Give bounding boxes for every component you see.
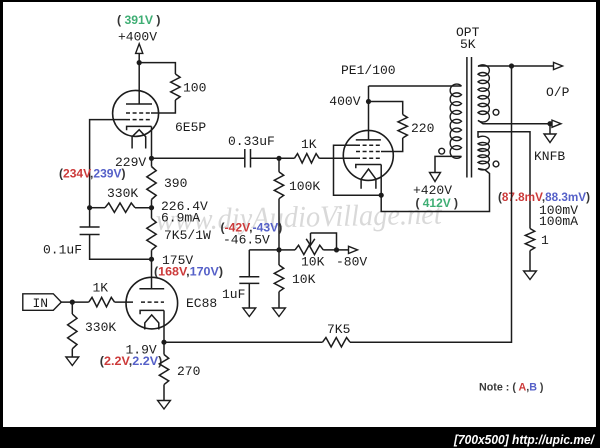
resistor 1: [525, 229, 534, 251]
wire bias to pot: [279, 249, 295, 251]
OPT primary winding: [450, 84, 461, 158]
wire 100K to bias node: [278, 199, 280, 250]
ground below 330K: [66, 357, 79, 366]
node 229V junction: [149, 156, 154, 161]
wire cap to grid node: [251, 157, 295, 159]
resistor 7K5 feedback: [323, 338, 351, 347]
wire 0.1uF to 175V node: [90, 235, 152, 260]
svg-text:+400V: +400V: [118, 29, 157, 44]
wire EC88 cathode lead: [163, 310, 165, 342]
wire bias to 330K: [90, 207, 105, 209]
OPT core: [466, 57, 468, 178]
wire 6E5P grid to bias node: [90, 120, 114, 208]
node +400V junction: [137, 60, 142, 65]
svg-text:0.1uF: 0.1uF: [43, 243, 82, 258]
svg-text:330K: 330K: [85, 320, 116, 335]
wire secondary bottom: [478, 120, 552, 123]
svg-text:( 391V ): ( 391V ): [117, 13, 161, 27]
svg-text:5K: 5K: [460, 37, 476, 52]
tube PE1/100 envelope: [343, 130, 393, 180]
svg-text:400V: 400V: [329, 94, 360, 109]
potentiometer 10K body: [295, 245, 323, 254]
wire 100K top lead: [278, 158, 280, 172]
power arrow +420V: [430, 173, 441, 182]
svg-text:100mA: 100mA: [539, 214, 578, 229]
PE1 cathode: [356, 165, 381, 169]
6E5P cathode: [127, 126, 152, 130]
wire 10K to ground: [278, 292, 280, 308]
wire 1 ohm to ground: [529, 251, 531, 271]
EC88 heater: [145, 315, 159, 330]
EC88 cathode: [140, 310, 164, 314]
svg-text:( 412V ): ( 412V ): [416, 196, 459, 210]
resistor 7K5/1W: [147, 218, 156, 250]
resistor 390: [147, 167, 156, 200]
svg-text:100: 100: [183, 81, 206, 96]
wire IN node to 330K: [71, 302, 73, 314]
OPT KNFB winding: [478, 136, 489, 170]
EC88 grid dashes: [141, 301, 164, 303]
svg-text:6.9mA: 6.9mA: [161, 211, 200, 226]
capacitor 0.33uF: [244, 149, 246, 168]
6E5P heater: [132, 130, 146, 149]
svg-text:10K: 10K: [292, 272, 316, 287]
ground below 270: [158, 401, 171, 410]
wire 1K to PE1 grid: [319, 157, 356, 159]
svg-text:220: 220: [411, 121, 434, 136]
svg-text:[700x500] http://upic.me/: [700x500] http://upic.me/: [453, 432, 595, 447]
svg-text:6E5P: 6E5P: [175, 120, 206, 135]
svg-text:Note : ( A,B ): Note : ( A,B ): [479, 382, 544, 394]
tube 6E5P envelope: [113, 90, 159, 136]
ground below 1 ohm: [524, 271, 537, 280]
svg-text:7K5/1W: 7K5/1W: [164, 228, 211, 243]
resistor 270: [159, 355, 168, 385]
wire 400V to 220: [369, 102, 403, 115]
svg-text:-46.5V: -46.5V: [223, 233, 270, 248]
wire pot to -80V arrow: [323, 249, 348, 251]
wire 7K5 to output: [350, 66, 512, 342]
resistor 220: [398, 115, 407, 139]
6E5P grid g2 dashes: [126, 112, 151, 114]
ground at secondary: [549, 124, 551, 134]
tube EC88 envelope: [126, 277, 178, 329]
svg-text:330K: 330K: [107, 186, 138, 201]
wire PE1 plate lead: [368, 86, 370, 140]
PE1 g1 dashes: [356, 157, 381, 159]
node bias junction: [276, 247, 281, 252]
node 100K top: [276, 156, 281, 161]
PE1 heater: [361, 169, 376, 189]
power arrow +400V supply: [136, 44, 143, 54]
node IN junction: [70, 300, 75, 305]
tag IN terminal: [23, 294, 62, 311]
capacitor 1uF: [239, 276, 259, 278]
pot wiper arrow: [310, 233, 312, 245]
OPT secondary winding: [478, 65, 489, 122]
EC88 plate: [139, 288, 164, 290]
resistor 10K lower: [274, 265, 283, 292]
resistor 1K grid PE1: [294, 154, 319, 163]
wire bias to 10K lower: [278, 250, 280, 265]
PE1 g3 dashes: [356, 144, 381, 146]
svg-text:270: 270: [177, 364, 200, 379]
wire 270 to ground: [163, 385, 165, 401]
6E5P plate: [126, 103, 152, 105]
wire 6E5P cathode lead: [151, 126, 153, 158]
wire bias node to 1uF: [249, 249, 279, 251]
svg-text:IN: IN: [33, 296, 49, 311]
svg-text:KNFB: KNFB: [534, 149, 565, 164]
node cathode 1.9V: [161, 340, 166, 345]
svg-text:390: 390: [164, 176, 187, 191]
resistor 1K grid stopper: [89, 297, 115, 306]
node O/P junction: [509, 63, 514, 68]
node secondary bottom: [547, 121, 552, 126]
ground below 1uF: [243, 308, 256, 317]
svg-text:PE1/100: PE1/100: [341, 63, 396, 78]
wire cathode to 270: [163, 342, 165, 354]
terminal O/P arrow: [554, 62, 563, 69]
svg-text:1: 1: [541, 233, 549, 248]
PE1 plate: [356, 139, 381, 141]
wire plate to primary: [369, 85, 462, 87]
svg-text:100K: 100K: [289, 179, 320, 194]
svg-text:7K5: 7K5: [327, 322, 350, 337]
ground below 10K: [273, 308, 286, 317]
wire +400V to 6E5P plate: [138, 63, 140, 104]
node PE1 cathode junction: [379, 193, 384, 198]
wire KNFB top lead: [478, 132, 530, 229]
svg-text:(234V,239V): (234V,239V): [59, 167, 126, 181]
wire R100 to 6E5P g2: [151, 100, 175, 113]
wire 1uF top lead: [248, 250, 250, 277]
terminal -80V arrow: [349, 246, 358, 253]
svg-text:O/P: O/P: [546, 85, 570, 100]
wire cathode to 7K5: [164, 341, 323, 343]
KNFB phase dot: [493, 161, 499, 167]
wire 220 to PE1 g2: [393, 138, 403, 152]
resistor 330K grid leak: [68, 314, 77, 349]
svg-text:1K: 1K: [301, 137, 317, 152]
node 330K right end: [149, 205, 154, 210]
svg-text:1K: 1K: [93, 280, 109, 295]
wire +400V to R 100: [139, 63, 175, 74]
svg-text:0.33uF: 0.33uF: [228, 134, 275, 149]
pot wiper bracket: [311, 233, 337, 250]
wire secondary top to O/P: [478, 65, 554, 67]
wire 229V down: [151, 158, 153, 166]
resistor 100K: [274, 172, 283, 199]
wire PE1 g3 to cathode: [334, 145, 382, 195]
svg-text:-80V: -80V: [336, 255, 367, 270]
node 400V junction: [366, 99, 371, 104]
svg-text:(168V,170V): (168V,170V): [154, 265, 223, 279]
resistor 330K (upper): [105, 203, 135, 212]
wire between 390 and 7K5/1W: [151, 200, 153, 219]
wire 7K5/1W to EC88 plate: [151, 250, 153, 289]
PE1 g2 dashes: [356, 151, 381, 153]
wire bias down to 0.1uF: [89, 208, 91, 227]
svg-text:1uF: 1uF: [222, 287, 245, 302]
primary phase dot: [439, 148, 445, 154]
node pot right: [334, 247, 339, 252]
6E5P grid g1 dashes: [126, 119, 150, 121]
wire 1uF to ground: [248, 283, 250, 308]
wire cathode to KNFB winding: [381, 169, 489, 212]
wire primary to +420V: [435, 156, 462, 172]
wire 1K to EC88 grid: [115, 301, 134, 303]
wire 330K to ground: [71, 349, 73, 357]
wire IN to grid node: [61, 301, 89, 303]
node bias left: [87, 205, 92, 210]
svg-text:(2.2V,2.2V): (2.2V,2.2V): [100, 354, 163, 368]
resistor 100 (screen): [171, 74, 180, 100]
wire PE1 cathode lead: [380, 165, 382, 196]
node 175V junction: [149, 257, 154, 262]
svg-text:10K: 10K: [301, 255, 325, 270]
wire 330K to cathode node: [135, 207, 152, 209]
svg-text:EC88: EC88: [186, 296, 217, 311]
wire 229V to coupling cap: [152, 157, 245, 159]
terminal arrow lower: [552, 120, 561, 127]
capacitor 0.1uF: [80, 226, 100, 228]
secondary phase dot: [493, 109, 499, 115]
